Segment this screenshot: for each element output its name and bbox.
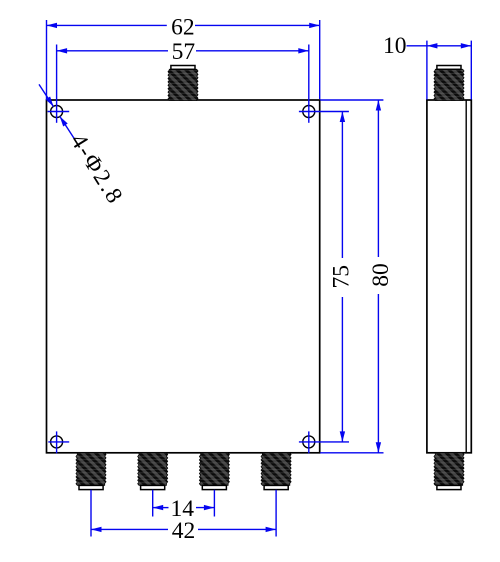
bottom connector J3 cap (141, 485, 165, 489)
mounting hole top-right (303, 106, 315, 118)
dim 10 arrow left (427, 43, 438, 48)
top-right hole horizontal centerline and dim 75 top extension (299, 111, 349, 113)
dim 62 arrow right (309, 23, 320, 28)
dim 62 extension line right (319, 20, 321, 99)
bottom connector J5 cap (264, 485, 288, 489)
dim 57 extension and centerline left (through top-left hole) (56, 45, 58, 123)
dim 80 arrow bottom (376, 442, 381, 453)
svg-text:42: 42 (172, 518, 196, 544)
dim 75 line bottom segment (341, 297, 343, 442)
front view body outline (47, 100, 320, 453)
side view bottom connector cap (437, 485, 461, 489)
side view bottom connector threaded body (434, 453, 464, 486)
dim 57 arrow right (298, 48, 309, 53)
mounting hole bottom-left (51, 436, 63, 448)
mounting hole top-left (51, 106, 63, 118)
dim 10 arrow right (461, 43, 472, 48)
svg-text:57: 57 (172, 39, 196, 65)
dim 42 line right segment (198, 528, 276, 530)
dim 80 line top segment (377, 100, 379, 257)
dim 42 arrow left (91, 527, 102, 532)
dim 62 arrow left (47, 23, 58, 28)
dim 57 line left segment (57, 50, 168, 52)
hole leader arrow lower (points at hole) (60, 116, 68, 126)
dim 14 arrow left (153, 505, 164, 510)
side view cover step line (465, 100, 467, 453)
dim 62 line right segment (195, 24, 320, 26)
top connector J1 threaded body (168, 69, 198, 100)
dim 75 line top segment (341, 112, 343, 259)
dim 14 line left segment (153, 507, 169, 509)
dim 42 extension line left (connector J2) (90, 490, 92, 537)
dim 10 extension line right (470, 41, 472, 100)
dim 80 line bottom segment (377, 294, 379, 453)
side view body outline (427, 100, 471, 453)
dim 10 extension line left (426, 41, 428, 100)
svg-text:75: 75 (329, 265, 355, 289)
dim 14 line right segment (196, 507, 214, 509)
dim 14 extension line left (connector J3) (152, 490, 154, 517)
bottom connector J2 threaded body (76, 453, 106, 486)
dim 10 line (427, 45, 471, 47)
bottom-right hole vertical centerline (308, 431, 310, 453)
hole leader upper segment (39, 84, 54, 106)
dim 57 arrow left (57, 48, 68, 53)
svg-text:10: 10 (383, 33, 407, 59)
dim 80 top extension line (320, 99, 383, 101)
dim 57 line right segment (196, 50, 309, 52)
hole leader lower segment (60, 116, 76, 140)
dim 42 extension line right (connector J5) (275, 490, 277, 537)
bottom connector J2 cap (79, 485, 103, 489)
dim 62 line left segment (47, 24, 167, 26)
bottom connector J5 threaded body (261, 453, 291, 486)
dim 75 arrow top (340, 112, 345, 123)
side view top connector cap (437, 66, 461, 70)
bottom connector J4 threaded body (199, 453, 229, 486)
svg-text:62: 62 (171, 14, 195, 40)
dim 62 extension line left (46, 20, 48, 99)
bottom-right hole horizontal centerline and dim 75 bottom extension (299, 441, 349, 443)
bottom-left hole vertical centerline (56, 431, 58, 453)
dim 80 arrow top (376, 100, 381, 111)
dim 57 extension and centerline right (through top-right hole) (308, 45, 310, 123)
bottom connector J3 threaded body (138, 453, 168, 486)
svg-text:80: 80 (368, 263, 394, 287)
bottom-left hole horizontal centerline (48, 441, 69, 443)
dim 75 arrow bottom (340, 431, 345, 442)
hole leader arrow upper (points at hole) (46, 97, 54, 107)
side view top connector threaded body (434, 69, 464, 100)
dim 80 bottom extension line (320, 452, 383, 454)
dim 10 leader line (407, 45, 427, 47)
dim 42 line left segment (91, 528, 168, 530)
mounting hole bottom-right (303, 436, 315, 448)
top connector J1 cap (171, 66, 195, 70)
top-left hole horizontal centerline (48, 111, 70, 113)
dim 42 arrow right (266, 527, 277, 532)
dim 14 arrow right (204, 505, 215, 510)
bottom connector J4 cap (202, 485, 226, 489)
dim 14 extension line right (connector J4) (213, 490, 215, 517)
